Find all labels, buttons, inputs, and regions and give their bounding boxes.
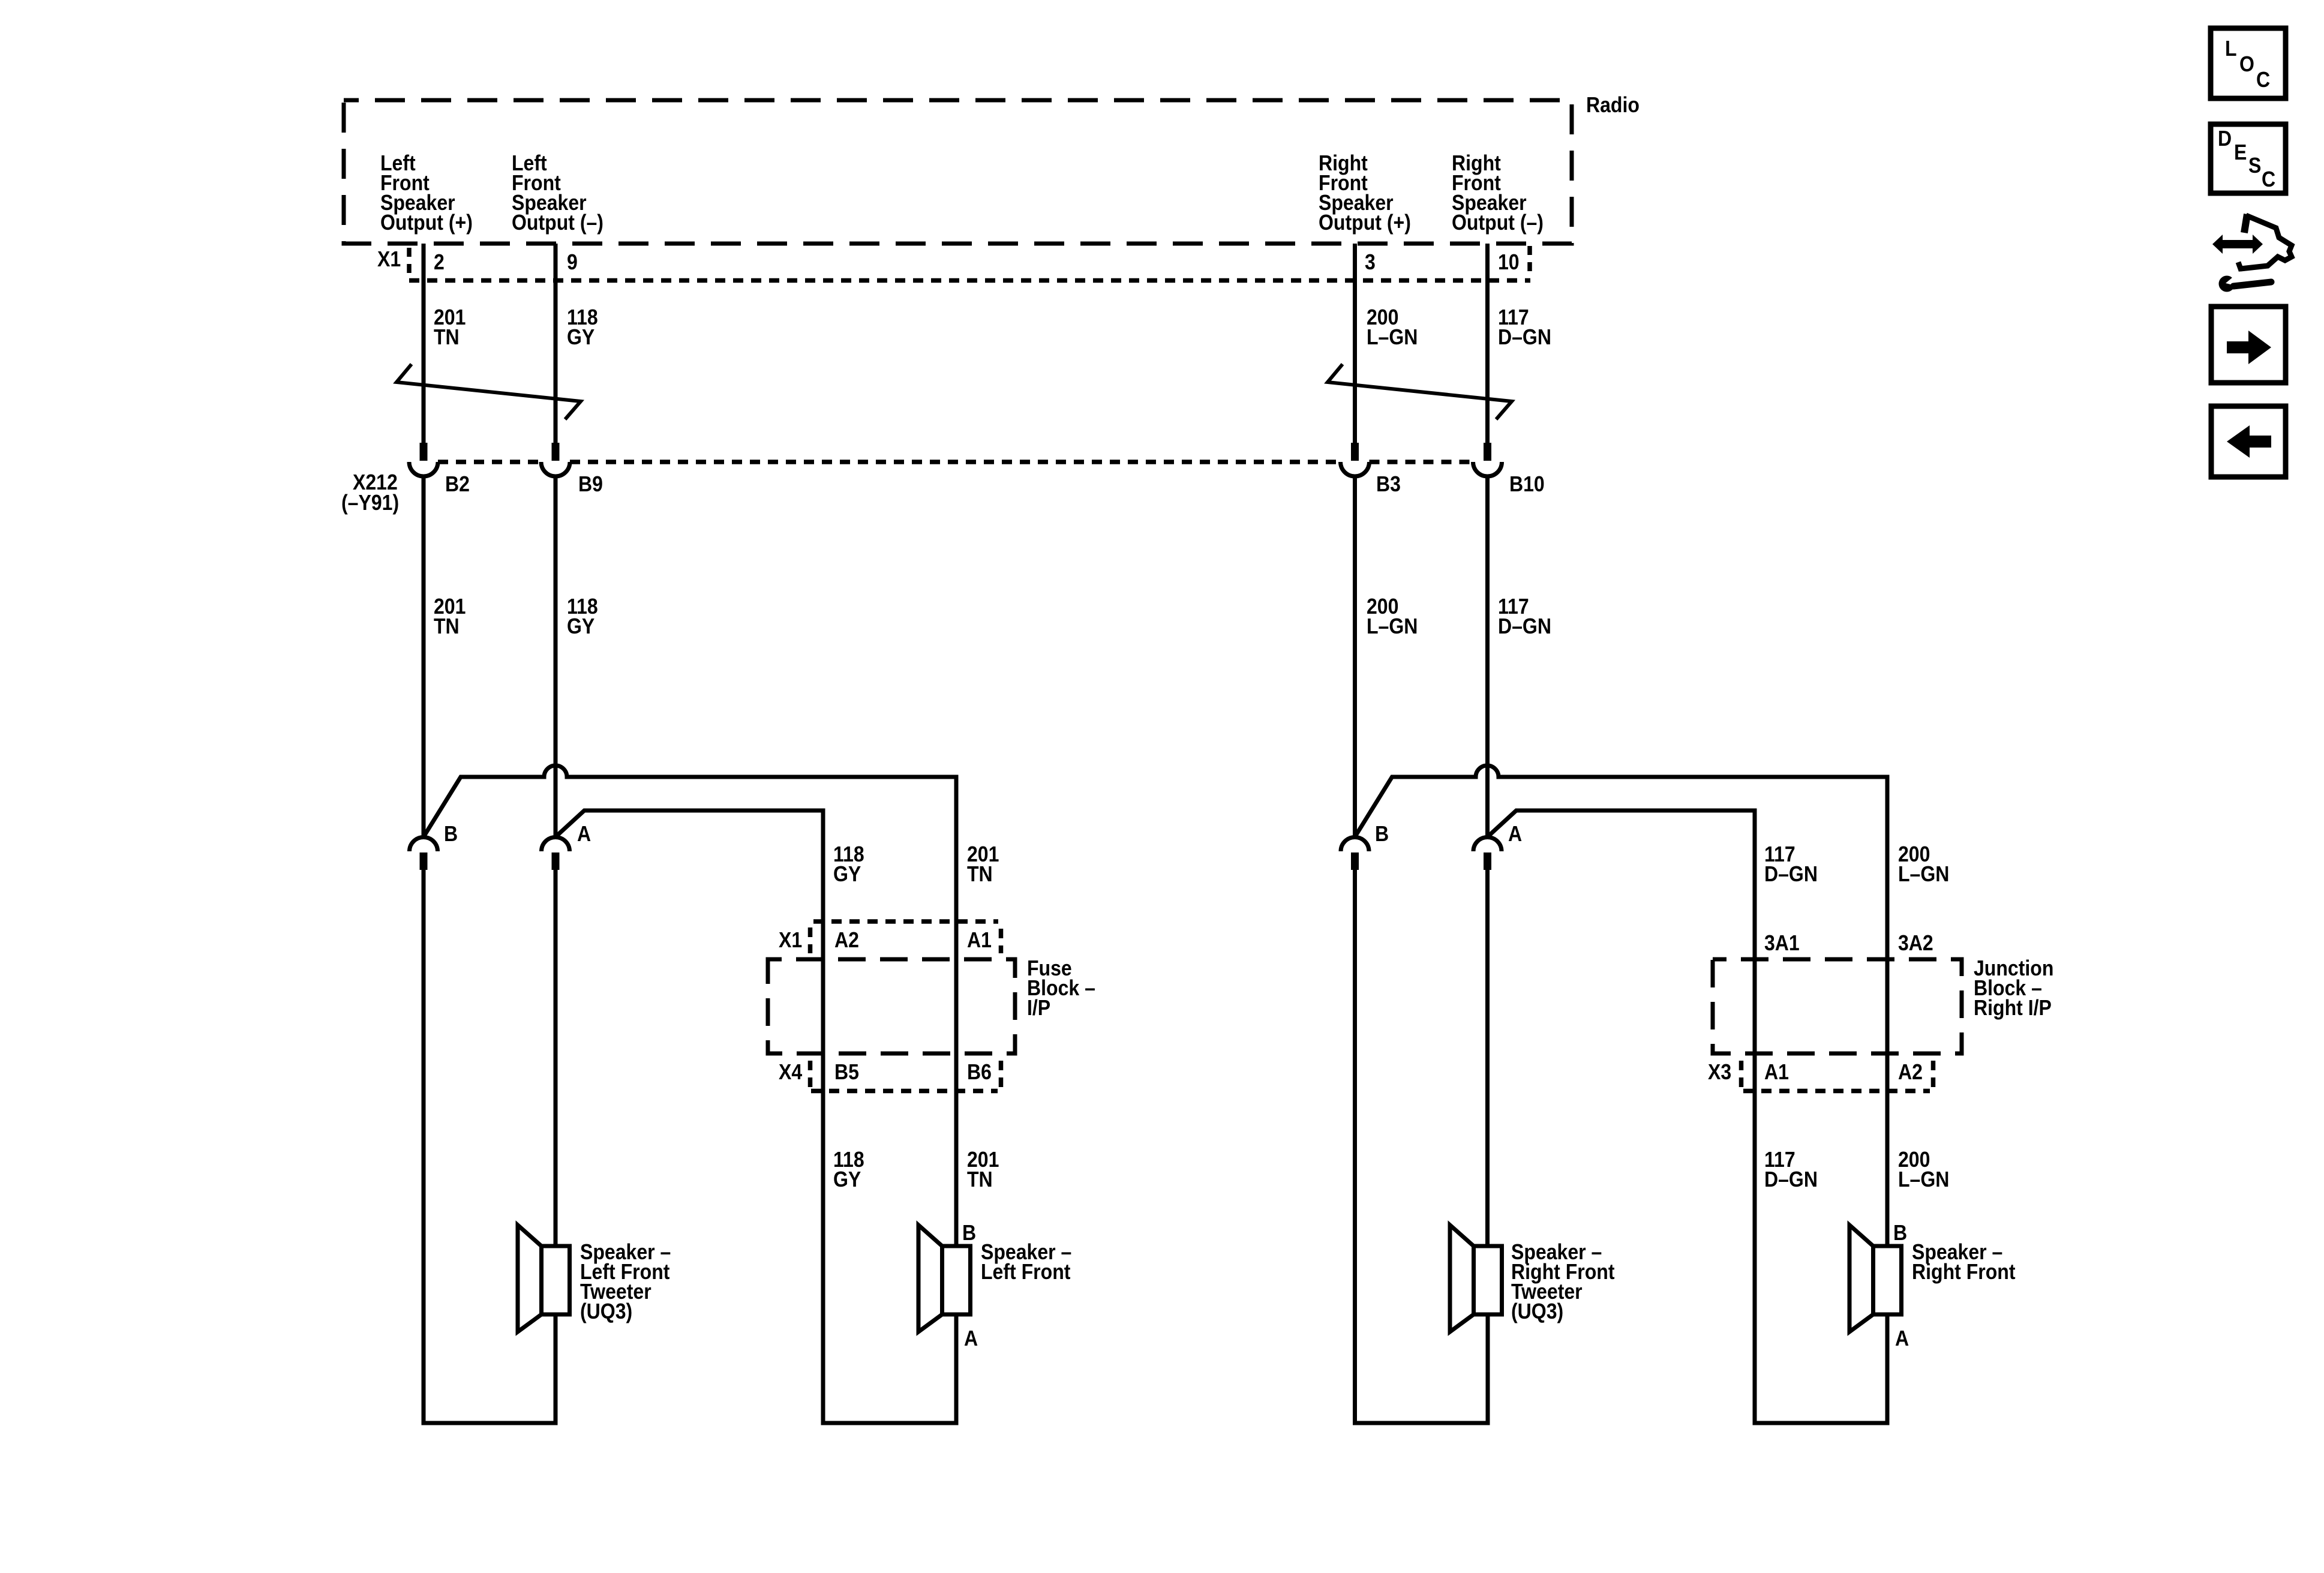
- connector X212 socket B9: [541, 462, 570, 476]
- radio component dashed box: [344, 100, 1572, 244]
- svg-text:A2: A2: [834, 928, 859, 952]
- svg-text:A1: A1: [1764, 1060, 1789, 1084]
- connector X212 socket B2: [409, 462, 438, 476]
- label A (right): [1508, 822, 1522, 846]
- icon DESC button: [2211, 124, 2286, 193]
- svg-text:S: S: [2248, 154, 2261, 178]
- wire 201 TN X212 to splice B: [422, 476, 426, 837]
- svg-text:TN: TN: [434, 614, 460, 638]
- svg-text:B5: B5: [834, 1060, 859, 1084]
- label Junction Block - Right I/P: [1974, 956, 2053, 1020]
- inline connector B socket (left 201 TN): [410, 837, 438, 852]
- wire branch 118 GY to fuse block A2: [556, 810, 956, 1423]
- label X3 (junction block): [1708, 1060, 1731, 1084]
- label Speaker - Right Front: [1912, 1240, 2016, 1284]
- svg-text:D: D: [2218, 127, 2232, 151]
- svg-text:B: B: [444, 822, 458, 846]
- svg-text:B6: B6: [967, 1060, 992, 1084]
- svg-text:I/P: I/P: [1027, 996, 1050, 1020]
- svg-text:L–GN: L–GN: [1898, 1167, 1949, 1191]
- icon harness wrench: [2212, 214, 2292, 292]
- wire branch 201 TN to fuse block A1: [424, 766, 956, 1246]
- svg-text:X1: X1: [779, 928, 802, 952]
- connector X1 dotted row: [409, 246, 1530, 281]
- speaker left front tweeter symbol: [518, 1225, 570, 1332]
- label B3: [1376, 472, 1401, 496]
- svg-text:A: A: [1895, 1326, 1909, 1350]
- inline connector A socket (left 118 GY): [542, 837, 570, 852]
- svg-text:C: C: [2262, 167, 2275, 191]
- label pin 3A2: [1898, 931, 1933, 955]
- svg-text:L–GN: L–GN: [1367, 325, 1418, 349]
- label 200 L-GN (below junction block): [1898, 1148, 1949, 1191]
- label A (left): [577, 822, 591, 846]
- svg-text:10: 10: [1498, 250, 1520, 274]
- label X1 (fuse block): [779, 928, 802, 952]
- svg-text:Output (+): Output (+): [380, 211, 473, 235]
- wire 200 L-GN from radio pin 3: [1353, 244, 1357, 444]
- svg-text:B: B: [1893, 1221, 1907, 1245]
- svg-text:Right I/P: Right I/P: [1974, 996, 2052, 1020]
- inline connector B pin (left 201 TN): [420, 852, 428, 870]
- svg-text:3: 3: [1365, 250, 1376, 274]
- svg-text:Radio: Radio: [1586, 93, 1640, 117]
- label 118 GY (above fuse block): [833, 842, 864, 886]
- radio pin label Right Front Speaker Output (+): [1319, 151, 1411, 235]
- label Speaker - Left Front: [981, 1240, 1071, 1284]
- svg-text:Output (–): Output (–): [512, 211, 603, 235]
- label terminal B (left front speaker): [962, 1221, 976, 1245]
- label B (left): [444, 822, 458, 846]
- label Fuse Block - I/P: [1027, 956, 1095, 1020]
- label 118 GY: [567, 305, 598, 349]
- label Speaker - Left Front Tweeter (UQ3): [580, 1240, 671, 1323]
- label B10: [1509, 472, 1545, 496]
- label 117 D-GN: [1498, 305, 1551, 349]
- fuse block connector X4 dotted row: [810, 1061, 1001, 1091]
- svg-text:X3: X3: [1708, 1060, 1731, 1084]
- svg-text:Left Front: Left Front: [981, 1260, 1070, 1284]
- label terminal A (right front speaker): [1895, 1326, 1909, 1350]
- icon forward arrow button: [2211, 307, 2286, 383]
- inline connector A pin (right 117 D-GN): [1484, 852, 1491, 870]
- svg-text:B3: B3: [1376, 472, 1401, 496]
- label 117 D-GN (above junction block): [1764, 842, 1818, 886]
- label 201 TN: [434, 305, 466, 349]
- label 117 D-GN (second): [1498, 595, 1551, 638]
- label pin A2: [834, 928, 859, 952]
- svg-text:A1: A1: [967, 928, 992, 952]
- fuse block connector X1 dotted row: [810, 921, 1001, 953]
- speaker right front tweeter symbol: [1450, 1225, 1502, 1332]
- svg-text:GY: GY: [833, 862, 861, 886]
- label Radio: [1586, 93, 1640, 117]
- svg-text:9: 9: [567, 250, 578, 274]
- pin 3: [1365, 250, 1376, 274]
- wire branch 117 D-GN to junction block 3A1: [1488, 810, 1888, 1423]
- label B2: [445, 472, 470, 496]
- label 200 L-GN: [1367, 305, 1418, 349]
- svg-text:Output (+): Output (+): [1319, 211, 1411, 235]
- wire 200 L-GN splice B down to tweeter loop: [1355, 870, 1488, 1423]
- inline connector B pin (right 200 L-GN): [1351, 852, 1359, 870]
- svg-text:TN: TN: [967, 862, 993, 886]
- svg-text:(–Y91): (–Y91): [341, 491, 399, 515]
- speaker right front symbol: [1849, 1225, 1902, 1332]
- label pin B5: [834, 1060, 859, 1084]
- fuse block dashed box: [768, 959, 1015, 1053]
- label 201 TN (above fuse block): [967, 842, 999, 886]
- label 200 L-GN (second): [1367, 595, 1418, 638]
- label 118 GY (below fuse block): [833, 1148, 864, 1191]
- svg-text:B9: B9: [578, 472, 603, 496]
- svg-text:A: A: [1508, 822, 1522, 846]
- label terminal B (right front speaker): [1893, 1221, 1907, 1245]
- svg-text:E: E: [2234, 140, 2247, 164]
- label pin A1 (junction block): [1764, 1060, 1789, 1084]
- label 118 GY (second): [567, 595, 598, 638]
- svg-text:A: A: [964, 1326, 978, 1350]
- svg-text:3A2: 3A2: [1898, 931, 1933, 955]
- svg-text:(UQ3): (UQ3): [580, 1299, 632, 1323]
- connector X212 socket B3: [1341, 462, 1370, 476]
- svg-text:2: 2: [434, 250, 445, 274]
- label X4 (fuse block): [779, 1060, 802, 1084]
- junction block connector X3 dotted row: [1742, 1061, 1933, 1091]
- connector X212 pin B2 male terminal: [420, 443, 428, 461]
- inline connector B socket (right 200 L-GN): [1341, 837, 1369, 852]
- label 200 L-GN (above junction block): [1898, 842, 1949, 886]
- connector X212 pin B9 male terminal: [552, 443, 560, 461]
- connector X212 dotted row: [438, 460, 1473, 464]
- wire 200 L-GN X212 to splice B: [1353, 476, 1357, 837]
- svg-text:D–GN: D–GN: [1498, 325, 1551, 349]
- label B (right): [1375, 822, 1389, 846]
- label terminal A (left front speaker): [964, 1326, 978, 1350]
- svg-text:D–GN: D–GN: [1764, 1167, 1818, 1191]
- svg-text:B: B: [962, 1221, 976, 1245]
- svg-text:O: O: [2239, 52, 2254, 76]
- wire 201 TN from radio pin 2: [422, 244, 426, 444]
- svg-text:TN: TN: [967, 1167, 993, 1191]
- label X212 (-Y91): [341, 470, 399, 515]
- wire 117 D-GN splice A down to tweeter top: [1485, 870, 1490, 1246]
- svg-text:A: A: [577, 822, 591, 846]
- svg-text:3A1: 3A1: [1764, 931, 1800, 955]
- twisted pair symbol right: [1328, 364, 1512, 419]
- pin 2: [434, 250, 445, 274]
- label 117 D-GN (below junction block): [1764, 1148, 1818, 1191]
- label 201 TN (below fuse block): [967, 1148, 999, 1191]
- svg-text:L–GN: L–GN: [1898, 862, 1949, 886]
- svg-text:GY: GY: [833, 1167, 861, 1191]
- label B9: [578, 472, 603, 496]
- wire 118 GY splice A down to tweeter top: [554, 870, 558, 1246]
- radio pin label Left Front Speaker Output (-): [512, 151, 603, 235]
- svg-text:B10: B10: [1509, 472, 1545, 496]
- inline connector A socket (right 117 D-GN): [1473, 837, 1502, 852]
- svg-text:Output (–): Output (–): [1452, 211, 1544, 235]
- label pin A2 (junction block): [1898, 1060, 1923, 1084]
- svg-text:(UQ3): (UQ3): [1511, 1299, 1563, 1323]
- connector X212 socket B10: [1473, 462, 1502, 476]
- svg-text:L: L: [2225, 37, 2237, 61]
- label X1: [377, 247, 401, 271]
- wire 117 D-GN X212 to splice A: [1485, 476, 1490, 837]
- connector X212 pin B3 male terminal: [1351, 443, 1359, 461]
- wire 201 TN splice B down to tweeter loop: [424, 870, 556, 1423]
- svg-text:X4: X4: [779, 1060, 802, 1084]
- connector X212 pin B10 male terminal: [1484, 443, 1491, 461]
- svg-text:C: C: [2256, 68, 2270, 92]
- svg-text:TN: TN: [434, 325, 460, 349]
- label pin B6: [967, 1060, 992, 1084]
- svg-text:B2: B2: [445, 472, 470, 496]
- label 201 TN (second): [434, 595, 466, 638]
- inline connector A pin (left 118 GY): [552, 852, 560, 870]
- svg-text:D–GN: D–GN: [1498, 614, 1551, 638]
- radio pin label Right Front Speaker Output (-): [1452, 151, 1544, 235]
- junction block dashed box: [1713, 959, 1962, 1053]
- label pin 3A1: [1764, 931, 1800, 955]
- label Speaker - Right Front Tweeter (UQ3): [1511, 1240, 1615, 1323]
- pin 9: [567, 250, 578, 274]
- svg-text:L–GN: L–GN: [1367, 614, 1418, 638]
- wire 117 D-GN from radio pin 10: [1485, 244, 1490, 444]
- wire 118 GY X212 to splice A: [554, 476, 558, 837]
- svg-text:X1: X1: [377, 247, 401, 271]
- twisted pair symbol left: [397, 364, 581, 419]
- icon LOC button: [2211, 28, 2286, 98]
- label pin A1: [967, 928, 992, 952]
- wire branch 200 L-GN to junction block 3A2: [1355, 766, 1888, 1246]
- pin 10: [1498, 250, 1520, 274]
- icon back arrow button: [2211, 406, 2286, 477]
- wire 118 GY from radio pin 9: [554, 244, 558, 444]
- svg-text:B: B: [1375, 822, 1389, 846]
- svg-text:Right Front: Right Front: [1912, 1260, 2016, 1284]
- svg-text:D–GN: D–GN: [1764, 862, 1818, 886]
- radio pin label Left Front Speaker Output (+): [380, 151, 473, 235]
- svg-text:GY: GY: [567, 325, 595, 349]
- svg-text:GY: GY: [567, 614, 595, 638]
- speaker left front symbol: [918, 1225, 971, 1332]
- svg-text:A2: A2: [1898, 1060, 1923, 1084]
